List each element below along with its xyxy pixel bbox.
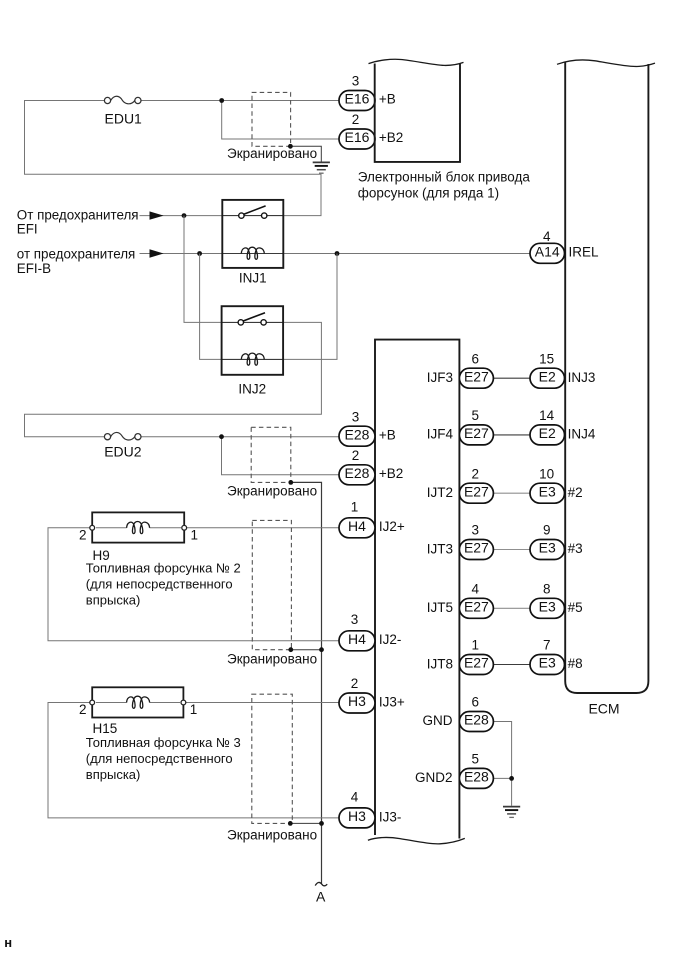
svg-text:INJ1: INJ1 bbox=[239, 271, 267, 286]
svg-text:IJ2+: IJ2+ bbox=[379, 519, 405, 534]
svg-text:Экранировано: Экранировано bbox=[227, 651, 317, 666]
wire: vertical EFI feed to INJ2 switch bbox=[184, 216, 222, 323]
shield dashed box (EDU1 wires) bbox=[252, 92, 291, 146]
wire: INJ1 switch internal bbox=[222, 215, 283, 217]
relay INJ1 box bbox=[222, 200, 283, 268]
junction dot shield EDU1 bbox=[288, 144, 293, 149]
wire: link E27 to E2 (IJF4 row) bbox=[494, 434, 531, 436]
wire: EFI lead continues to INJ1 switch bbox=[184, 215, 222, 217]
wire: H15 shield drain to node A vertical bbox=[290, 822, 321, 824]
svg-text:#8: #8 bbox=[568, 656, 583, 671]
wire: vertical EFI-B feed to INJ2 coil bbox=[200, 254, 222, 360]
svg-text:H3: H3 bbox=[348, 808, 366, 824]
svg-text:E2: E2 bbox=[539, 368, 556, 384]
wire: link E27 to E2 (IJF3 row) bbox=[494, 377, 531, 379]
ECM torn wavy top edge bbox=[557, 60, 655, 66]
svg-text:EDU1: EDU1 bbox=[105, 110, 143, 126]
svg-text:6: 6 bbox=[471, 695, 479, 710]
svg-text:4: 4 bbox=[543, 229, 551, 244]
wire: GND to ground bbox=[494, 722, 512, 806]
svg-text:1: 1 bbox=[190, 702, 198, 717]
injector H15 coil bbox=[127, 696, 150, 708]
junction dot on EDU1 row bbox=[219, 98, 224, 103]
wire: INJ2 coil internal and up to IREL wire bbox=[222, 358, 284, 360]
svg-text:5: 5 bbox=[471, 752, 479, 767]
shield dashed box (H9 wires) bbox=[252, 520, 291, 649]
injector H9 terminals with pin numbers 2 and 1 bbox=[90, 525, 95, 530]
svg-text:Экранировано: Экранировано bbox=[227, 146, 317, 161]
svg-text:E3: E3 bbox=[539, 540, 556, 556]
svg-text:н: н bbox=[4, 935, 12, 950]
fuse EDU2 bbox=[104, 432, 141, 440]
wire: EDU2 row from fuse to E28 +B bbox=[141, 436, 340, 438]
svg-text:#2: #2 bbox=[568, 485, 583, 500]
injector H9 coil bbox=[127, 522, 150, 534]
injector H9 (fuel injector no.2) body bbox=[92, 512, 184, 542]
svg-text:IJ3+: IJ3+ bbox=[379, 694, 405, 709]
svg-text:A: A bbox=[316, 888, 326, 904]
svg-text:GND: GND bbox=[423, 713, 453, 728]
svg-text:E3: E3 bbox=[539, 655, 556, 671]
connector E27 pin6 IJF3 bbox=[459, 368, 493, 388]
wire: INJ1 coil row to IREL A14 bbox=[222, 253, 283, 255]
svg-text:IJT5: IJT5 bbox=[427, 600, 453, 615]
svg-text:7: 7 bbox=[543, 638, 551, 653]
svg-text:IJ3-: IJ3- bbox=[379, 809, 402, 824]
svg-text:E28: E28 bbox=[345, 465, 370, 481]
svg-text:A14: A14 bbox=[535, 244, 560, 260]
wire: EDU1 feed loop from INJ1 relay output (x321 up, y174 left, x25 down) bbox=[25, 101, 322, 216]
connector E27 pin2 IJT2 bbox=[459, 483, 493, 503]
connector E2 pin14 INJ4 bbox=[530, 425, 565, 445]
relay INJ1 coil bbox=[241, 247, 264, 259]
connector H3 pin2 IJ3+ bbox=[339, 693, 375, 713]
svg-text:4: 4 bbox=[351, 789, 359, 804]
svg-text:IJT3: IJT3 bbox=[427, 541, 453, 556]
svg-text:8: 8 bbox=[543, 582, 551, 597]
svg-text:E27: E27 bbox=[464, 599, 489, 615]
connector E27 pin5 IJF4 bbox=[459, 425, 493, 445]
junction dot EFI-B bbox=[197, 251, 202, 256]
svg-text:14: 14 bbox=[539, 408, 555, 423]
wire: shield drain to node A vertical bbox=[291, 482, 322, 884]
wire: link E27 to E3 (IJT5 row) bbox=[494, 607, 531, 609]
svg-text:2: 2 bbox=[351, 676, 359, 691]
svg-text:6: 6 bbox=[471, 351, 479, 366]
svg-text:IJT2: IJT2 bbox=[427, 485, 453, 500]
relay INJ2 box bbox=[222, 306, 284, 375]
svg-text:E2: E2 bbox=[539, 425, 556, 441]
junction dot shield EDU2 bbox=[288, 480, 293, 485]
svg-text:EFI-B: EFI-B bbox=[17, 261, 51, 276]
svg-text:E27: E27 bbox=[464, 655, 489, 671]
connector E27 pin1 IJT8 bbox=[459, 655, 493, 675]
connector E28 pin2 +B2 (middle block) bbox=[339, 465, 375, 485]
shield dashed box (H15 wires) bbox=[252, 694, 292, 823]
svg-text:3: 3 bbox=[352, 74, 360, 89]
connector H4 pin1 IJ2+ bbox=[339, 518, 375, 538]
shield dashed box (EDU2 wires) bbox=[251, 427, 291, 482]
svg-text:IJF4: IJF4 bbox=[427, 427, 454, 442]
svg-text:IJF3: IJF3 bbox=[427, 370, 453, 385]
connector E28 pin6 GND bbox=[459, 712, 493, 732]
svg-text:2: 2 bbox=[352, 112, 360, 127]
svg-text:E27: E27 bbox=[464, 540, 489, 556]
svg-text:от предохранителя: от предохранителя bbox=[17, 247, 135, 262]
connector E3 pin8 #5 bbox=[530, 598, 565, 618]
middle block torn wavy bottom edge bbox=[368, 837, 465, 843]
svg-text:IREL: IREL bbox=[569, 245, 600, 260]
junction dot on IREL wire bbox=[335, 251, 340, 256]
svg-text:E27: E27 bbox=[464, 425, 489, 441]
svg-text:1: 1 bbox=[191, 528, 199, 543]
svg-text:Экранировано: Экранировано bbox=[227, 483, 317, 498]
svg-text:4: 4 bbox=[471, 582, 479, 597]
svg-text:+B2: +B2 bbox=[379, 466, 403, 481]
svg-text:2: 2 bbox=[471, 466, 479, 481]
ECM block outline with rounded bottom bbox=[565, 63, 648, 694]
wire: EFI-B continues to INJ1 coil bbox=[200, 253, 223, 255]
svg-text:E28: E28 bbox=[464, 712, 489, 728]
svg-text:2: 2 bbox=[79, 702, 87, 717]
connector A14 pin4 IREL bbox=[530, 243, 565, 263]
svg-text:IJ2-: IJ2- bbox=[379, 632, 402, 647]
svg-text:3: 3 bbox=[471, 523, 479, 538]
wire: INJ2 switch internal and output to EDU2 loop bbox=[222, 321, 284, 323]
svg-text:INJ4: INJ4 bbox=[568, 427, 596, 442]
svg-text:#5: #5 bbox=[568, 600, 583, 615]
svg-text:Топливная форсунка № 3: Топливная форсунка № 3 bbox=[86, 735, 241, 750]
svg-text:IJT8: IJT8 bbox=[427, 656, 453, 671]
svg-text:INJ3: INJ3 bbox=[568, 370, 596, 385]
wire: H9 right terminal to H4 IJ2+ bbox=[184, 527, 339, 529]
wire: H9 shield drain to node A vertical bbox=[291, 649, 322, 651]
svg-text:10: 10 bbox=[539, 466, 554, 481]
svg-text:#3: #3 bbox=[568, 541, 583, 556]
svg-text:Электронный блок привода: Электронный блок привода bbox=[358, 170, 531, 185]
wire: H15 left loop down to H3 IJ3- bbox=[48, 703, 340, 818]
svg-text:E28: E28 bbox=[345, 426, 370, 442]
relay INJ2 switch contacts bbox=[243, 313, 265, 321]
svg-text:E3: E3 bbox=[539, 483, 556, 499]
svg-text:1: 1 bbox=[471, 638, 479, 653]
EDU bank2 block (middle) outline bbox=[375, 340, 459, 839]
svg-text:GND2: GND2 bbox=[415, 770, 453, 785]
svg-text:E27: E27 bbox=[464, 368, 489, 384]
connector E3 pin9 #3 bbox=[530, 540, 565, 560]
EDU block (injector driver bank 1) outline bbox=[375, 64, 460, 162]
connector E2 pin15 INJ3 bbox=[530, 368, 565, 388]
svg-text:Топливная форсунка № 2: Топливная форсунка № 2 bbox=[86, 560, 241, 575]
svg-text:ECM: ECM bbox=[588, 700, 619, 716]
EDU block torn wavy top edge bbox=[369, 59, 464, 65]
connector E3 pin7 #8 bbox=[530, 655, 565, 675]
svg-text:EFI: EFI bbox=[17, 222, 38, 237]
wire: GND2 to ground junction bbox=[494, 777, 512, 779]
connector E16 pin3 +B bbox=[339, 91, 375, 111]
svg-text:E28: E28 bbox=[464, 769, 489, 785]
wire: from fuse EFI-B lead with arrow bbox=[140, 253, 200, 255]
svg-text:впрыска): впрыска) bbox=[86, 767, 141, 782]
wire: branch to E16 +B2 bbox=[222, 101, 340, 140]
svg-text:E16: E16 bbox=[345, 129, 370, 145]
connector E3 pin10 #2 bbox=[530, 483, 565, 503]
svg-text:H3: H3 bbox=[348, 693, 366, 709]
connector H4 pin3 IJ2- bbox=[339, 631, 375, 651]
wire: From fuse EFI lead with arrow bbox=[140, 215, 185, 217]
junction dot GND bbox=[509, 776, 514, 781]
relay INJ2 coil bbox=[241, 353, 264, 365]
wire: shield drain to ground bbox=[290, 146, 321, 162]
junction dots H15 shield bbox=[288, 821, 293, 826]
svg-text:От предохранителя: От предохранителя bbox=[17, 207, 139, 222]
svg-text:E27: E27 bbox=[464, 483, 489, 499]
svg-text:2: 2 bbox=[352, 448, 360, 463]
svg-text:форсунок (для ряда 1): форсунок (для ряда 1) bbox=[358, 186, 499, 201]
wire: H15 right terminal to H3 IJ3+ bbox=[183, 702, 339, 704]
svg-text:H15: H15 bbox=[93, 721, 118, 736]
svg-text:EDU2: EDU2 bbox=[104, 443, 142, 459]
connector E28 pin3 +B (middle block) bbox=[339, 426, 375, 446]
svg-text:2: 2 bbox=[79, 528, 87, 543]
svg-text:Экранировано: Экранировано bbox=[227, 827, 317, 842]
wire: link E27 to E3 (IJT8 row) bbox=[494, 664, 531, 666]
svg-text:H4: H4 bbox=[348, 631, 366, 647]
svg-text:+B: +B bbox=[379, 92, 396, 107]
svg-text:3: 3 bbox=[352, 409, 360, 424]
ground symbol (EDU1 shield) bbox=[313, 162, 330, 173]
junction dot EDU2 row bbox=[219, 434, 224, 439]
injector H15 (fuel injector no.3) body bbox=[92, 687, 183, 717]
svg-text:3: 3 bbox=[351, 612, 359, 627]
connector E16 pin2 +B2 bbox=[339, 129, 375, 149]
relay INJ1 switch contacts bbox=[244, 206, 266, 214]
svg-text:+B2: +B2 bbox=[379, 130, 403, 145]
svg-text:+B: +B bbox=[379, 428, 396, 443]
fuse EDU1 bbox=[104, 96, 141, 104]
connector E27 pin4 IJT5 bbox=[459, 598, 493, 618]
connector E28 pin5 GND2 bbox=[459, 768, 493, 788]
svg-text:H4: H4 bbox=[348, 518, 366, 534]
wire: branch to E28 +B2 bbox=[222, 437, 340, 475]
svg-text:(для непосредственного: (для непосредственного bbox=[86, 751, 233, 766]
svg-text:1: 1 bbox=[351, 499, 359, 514]
wire: EDU1 row from fuse to E16 +B bbox=[141, 100, 340, 102]
injector H15 terminals with pin numbers 2 and 1 bbox=[90, 700, 95, 705]
junction dot EFI bbox=[182, 213, 187, 218]
junction dots H9 shield bbox=[288, 647, 293, 652]
svg-text:(для непосредственного: (для непосредственного bbox=[86, 576, 233, 591]
ground symbol (GND/GND2) bbox=[503, 807, 520, 818]
svg-text:9: 9 bbox=[543, 523, 551, 538]
svg-text:5: 5 bbox=[471, 408, 479, 423]
node A : shield drain termination (tilde) and label bbox=[315, 882, 327, 885]
svg-text:впрыска): впрыска) bbox=[86, 592, 141, 607]
connector H3 pin4 IJ3- bbox=[339, 808, 375, 828]
wire: link E27 to E3 (IJT3 row) bbox=[494, 549, 531, 551]
svg-text:INJ2: INJ2 bbox=[238, 382, 266, 397]
svg-text:E3: E3 bbox=[539, 599, 556, 615]
svg-text:E16: E16 bbox=[345, 91, 370, 107]
svg-text:15: 15 bbox=[539, 351, 554, 366]
wire: link E27 to E3 (IJT2 row) bbox=[494, 492, 531, 494]
wire: H9 left loop down to H4 IJ2- bbox=[48, 528, 340, 641]
connector E27 pin3 IJT3 bbox=[459, 540, 493, 560]
